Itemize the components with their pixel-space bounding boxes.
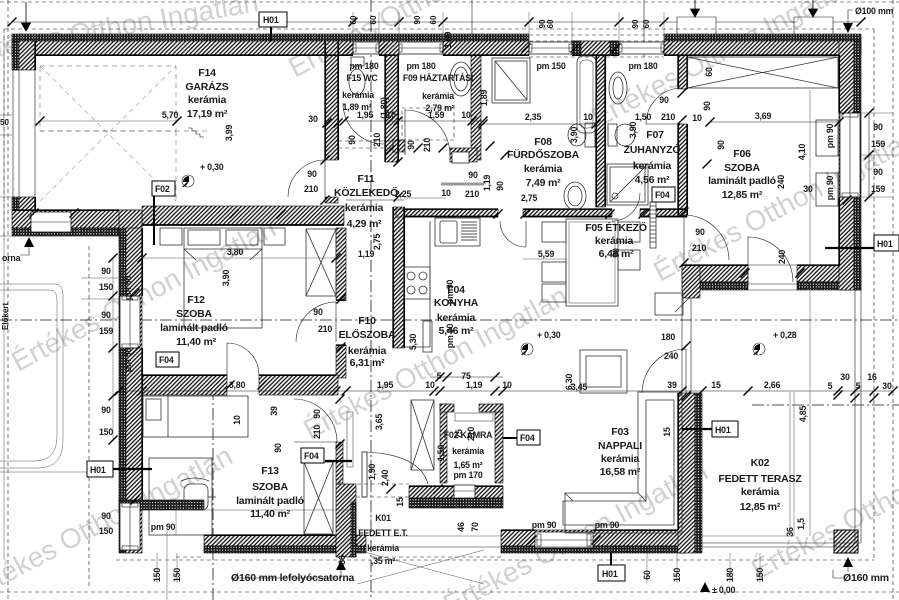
garage dim line: [36, 117, 182, 126]
kamra east wall: [495, 404, 503, 483]
svg-text:150: 150: [99, 526, 113, 536]
svg-text:F08: F08: [534, 136, 552, 148]
garage step glyph: [188, 128, 204, 137]
leader lefolyocsatorna left: [20, 245, 29, 255]
svg-text:2,25: 2,25: [395, 189, 412, 199]
svg-text:90: 90: [659, 95, 669, 105]
svg-text:F11: F11: [358, 173, 375, 185]
svg-text:60: 60: [429, 15, 438, 24]
svg-text:46: 46: [456, 522, 466, 532]
svg-text:150: 150: [672, 568, 682, 582]
svg-text:15: 15: [395, 497, 405, 507]
basin zuhanyzo: [609, 72, 627, 104]
svg-text:pm 90: pm 90: [123, 275, 133, 300]
svg-text:F15 WC: F15 WC: [346, 73, 378, 83]
window kamra south: [454, 485, 475, 498]
room F14 garazs label: [185, 67, 228, 120]
toilet wc: [349, 57, 365, 95]
svg-text:Ø160 mm: Ø160 mm: [843, 572, 889, 584]
label box F02 garage: [152, 181, 175, 245]
H01 tick F13 wall: [325, 460, 352, 462]
svg-text:F14: F14: [198, 67, 216, 79]
wall junction garage-F12: [119, 210, 142, 236]
window nappali south: [535, 532, 593, 548]
svg-text:ELŐSZOBA: ELŐSZOBA: [339, 328, 396, 341]
szoba F06 south wall east segment: [797, 265, 861, 282]
svg-text:pm 90: pm 90: [123, 347, 133, 372]
garage door opening west: [13, 70, 35, 197]
F13 south wall: [204, 535, 366, 546]
svg-text:F04: F04: [159, 355, 174, 365]
svg-text:15: 15: [662, 427, 672, 437]
svg-text:kerámia: kerámia: [345, 202, 384, 214]
door etkezo-terasz arc: [748, 237, 793, 282]
svg-text:laminált padló: laminált padló: [160, 322, 228, 334]
room F12 szoba label: [160, 294, 228, 348]
top wall hatch segment 2: [443, 41, 529, 55]
svg-text:1,19: 1,19: [358, 249, 375, 259]
svg-text:FÜRDŐSZOBA: FÜRDŐSZOBA: [507, 148, 580, 161]
porch west wall: [336, 484, 356, 557]
svg-text:F02: F02: [155, 184, 170, 194]
svg-text:159: 159: [871, 184, 885, 194]
svg-text:90: 90: [313, 307, 323, 317]
svg-text:H01: H01: [90, 465, 106, 475]
roof vent left: [677, 17, 716, 34]
svg-text:5: 5: [856, 381, 861, 391]
svg-text:90: 90: [101, 511, 111, 521]
kitchen sink unit: [435, 218, 480, 246]
svg-text:1,65 m²: 1,65 m²: [454, 460, 483, 470]
svg-text:90: 90: [702, 101, 712, 111]
svg-text:pm 90: pm 90: [825, 123, 835, 148]
svg-text:50: 50: [0, 118, 9, 127]
main bottom dim chain: [115, 387, 898, 396]
bathtub furdo: [577, 56, 596, 133]
room F03 nappali label: [598, 426, 642, 478]
wall inner face lines: [12, 41, 839, 535]
svg-text:pm 170: pm 170: [453, 470, 482, 480]
door opening szoba terrace lines: [748, 265, 797, 290]
svg-text:6,31 m²: 6,31 m²: [350, 357, 385, 369]
terrace edge k02 inner: [702, 392, 794, 536]
nappali texts: [532, 332, 679, 530]
porch canopy cross: [357, 550, 484, 584]
svg-text:10: 10: [232, 415, 242, 425]
wall haztartasi-furdo: [471, 55, 481, 160]
bottom rotated dims: [152, 555, 765, 582]
kitchen counter: [404, 221, 430, 347]
svg-text:2,75: 2,75: [372, 234, 382, 251]
svg-text:90: 90: [468, 170, 478, 180]
svg-text:1,95: 1,95: [377, 380, 394, 390]
svg-text:F10: F10: [358, 315, 376, 327]
svg-text:240: 240: [776, 175, 786, 189]
shower zuhanyzo: [607, 164, 648, 205]
dim texts f13: [269, 406, 283, 453]
bottom extension lines: [157, 508, 760, 600]
svg-text:5,70: 5,70: [162, 110, 179, 120]
svg-text:FEDETT E.T.: FEDETT E.T.: [358, 528, 408, 538]
svg-text:15: 15: [711, 380, 721, 390]
dim texts row garage: [162, 110, 234, 141]
interior dim row wc: [340, 117, 488, 126]
terrace bottom dim ticks: [834, 391, 879, 403]
svg-text:90: 90: [406, 140, 416, 150]
svg-text:10: 10: [461, 110, 471, 120]
svg-text:pm 90: pm 90: [445, 323, 455, 348]
door szoba F06 terrace sill: [748, 283, 797, 285]
svg-text:12,85 m²: 12,85 m²: [740, 501, 781, 513]
svg-text:F12: F12: [187, 294, 205, 306]
svg-text:12,85 m²: 12,85 m²: [722, 189, 763, 201]
door threshold haztartasi: [452, 152, 469, 163]
nightstand F06 b: [816, 173, 838, 206]
svg-text:30: 30: [882, 381, 892, 391]
window F12 west: [120, 296, 140, 348]
svg-text:2,66: 2,66: [764, 380, 781, 390]
kitchen ledge: [423, 321, 432, 352]
svg-text:3,69: 3,69: [755, 111, 772, 121]
svg-text:60: 60: [349, 15, 358, 24]
neighbour pool outline: [0, 284, 63, 468]
dim texts f12: [123, 247, 332, 372]
svg-text:210: 210: [318, 324, 332, 334]
wall zuhanyzo-szoba upper: [678, 55, 687, 89]
svg-text:kerámia: kerámia: [188, 94, 227, 106]
top rotated dims: [349, 15, 651, 28]
window top 3: [529, 42, 572, 54]
svg-text:F13: F13: [261, 465, 279, 477]
svg-text:10: 10: [692, 113, 702, 123]
nappali south wall: [501, 530, 686, 546]
svg-text:90: 90: [631, 19, 640, 28]
svg-text:60: 60: [369, 15, 378, 24]
dim row etkezo: [523, 258, 567, 260]
rotated dims middle: [232, 334, 480, 532]
west wall garage upper: [12, 41, 19, 70]
svg-text:60: 60: [546, 19, 555, 28]
svg-text:FEDETT TERASZ: FEDETT TERASZ: [718, 473, 802, 485]
svg-text:10: 10: [441, 188, 451, 198]
main axis vertical: [370, 0, 372, 600]
svg-text:H01: H01: [602, 569, 618, 579]
svg-text:10: 10: [583, 112, 593, 122]
svg-text:kerámia: kerámia: [452, 446, 484, 456]
svg-text:90: 90: [611, 248, 621, 258]
svg-text:180: 180: [661, 332, 675, 342]
svg-text:KÖZLEKEDŐ: KÖZLEKEDŐ: [334, 186, 398, 199]
svg-text:H01: H01: [263, 15, 279, 25]
svg-text:5: 5: [828, 381, 833, 391]
svg-text:90: 90: [307, 169, 317, 179]
svg-text:90: 90: [101, 310, 111, 320]
axis vertical left: [212, 388, 214, 600]
svg-text:90: 90: [273, 443, 283, 453]
svg-text:1,50: 1,50: [436, 445, 446, 462]
wardrobe eloszoba: [411, 400, 434, 470]
svg-text:kerámia: kerámia: [595, 235, 634, 247]
garage south wall: [12, 210, 142, 228]
kamra dim row: [430, 373, 503, 382]
left vertical dimension line: [0, 34, 119, 560]
window garage south: [31, 212, 71, 232]
svg-text:1,59: 1,59: [428, 110, 445, 120]
svg-text:2,35: 2,35: [525, 112, 542, 122]
svg-text:kerámia: kerámia: [437, 312, 476, 324]
entrance door leaf: [362, 452, 367, 497]
dim texts kozlekedo: [304, 114, 505, 250]
entrance door arc: [367, 452, 428, 484]
svg-text:16: 16: [867, 372, 877, 382]
window szoba east: [840, 113, 860, 197]
left vertical dim line F12: [81, 254, 119, 445]
east wall building: [839, 41, 854, 290]
svg-text:75: 75: [454, 429, 464, 439]
roof vent right: [794, 17, 833, 34]
svg-text:F03: F03: [611, 426, 629, 438]
wall kozlekedo east lower: [393, 207, 404, 348]
room F05 etkezo label: [585, 221, 647, 260]
wardrobe F12: [306, 229, 336, 296]
dim row F12: [138, 254, 341, 263]
svg-text:60: 60: [642, 19, 651, 28]
west wall garage lower stub: [12, 197, 19, 210]
interior dim row furdo: [479, 120, 601, 129]
svg-text:11,40 m²: 11,40 m²: [250, 508, 291, 520]
toilet furdo: [568, 123, 595, 147]
svg-text:60: 60: [642, 570, 652, 580]
svg-text:90: 90: [101, 405, 111, 415]
chair F13: [181, 478, 216, 510]
svg-text:1,50: 1,50: [635, 112, 652, 122]
wardrobe F13: [304, 462, 333, 534]
right vertical dim line terrace: [809, 90, 811, 536]
svg-text:150: 150: [152, 568, 162, 582]
axis horizontal right lower: [752, 404, 899, 406]
dim texts row small rooms: [357, 110, 772, 122]
svg-text:F05 ÉTKEZŐ: F05 ÉTKEZŐ: [585, 221, 647, 234]
room F09 haztartasi label: [403, 61, 473, 113]
svg-text:F04: F04: [655, 190, 670, 200]
room F08 furdoszoba label: [507, 136, 580, 189]
svg-text:70: 70: [470, 522, 480, 532]
door opening etkezo-terasz: [675, 298, 691, 393]
wall F12-eloszoba upper: [336, 228, 346, 300]
svg-text:5: 5: [437, 371, 442, 381]
svg-text:1,19: 1,19: [482, 175, 492, 192]
section line top b: [643, 0, 645, 57]
svg-text:7,49 m²: 7,49 m²: [526, 177, 561, 189]
level mark bottom: [700, 582, 710, 592]
svg-text:kerámia: kerámia: [741, 486, 780, 498]
main axis horizontal left: [0, 319, 899, 321]
svg-text:kerámia: kerámia: [367, 543, 399, 553]
svg-text:kerámia: kerámia: [601, 453, 640, 465]
label box F04 f13: [301, 448, 324, 463]
appliance dashed box haztartasi: [402, 108, 454, 140]
svg-text:5,30: 5,30: [408, 334, 418, 351]
svg-text:(1,80): (1,80): [379, 97, 389, 119]
svg-text:SZOBA: SZOBA: [724, 162, 760, 174]
svg-text:kerámia: kerámia: [422, 91, 454, 101]
nappali east wall: [678, 393, 695, 553]
svg-text:150: 150: [755, 568, 765, 582]
svg-text:240: 240: [777, 250, 787, 264]
svg-text:KONYHA: KONYHA: [434, 297, 479, 309]
F13 south-west step: [119, 500, 204, 510]
svg-text:30: 30: [840, 372, 850, 382]
kamra shelf: [455, 413, 493, 421]
door garage-kozlekedo arc: [288, 160, 325, 197]
svg-text:pm 90: pm 90: [595, 520, 620, 530]
label box F04 f12: [156, 352, 179, 367]
svg-text:Előkert: Előkert: [1, 303, 10, 330]
svg-text:90: 90: [695, 227, 705, 237]
svg-text:,35 m²: ,35 m²: [371, 556, 395, 566]
svg-text:laminált padló: laminált padló: [236, 495, 304, 507]
svg-text:kerámia: kerámia: [348, 345, 387, 357]
svg-text:SZOBA: SZOBA: [252, 481, 288, 493]
svg-text:210: 210: [661, 112, 675, 122]
svg-text:30: 30: [308, 114, 318, 124]
svg-text:F07: F07: [646, 129, 664, 141]
door haztartasi arc: [405, 110, 450, 155]
wall F12-F13: [142, 375, 227, 395]
west wall rooms F12 F13: [119, 228, 126, 553]
svg-text:NAPPALI: NAPPALI: [598, 440, 642, 452]
svg-text:3,90: 3,90: [628, 122, 638, 139]
toilet zuhanyzo: [608, 124, 635, 146]
svg-text:F06: F06: [733, 148, 751, 160]
label box H01 right: [825, 235, 899, 251]
window top 2: [399, 42, 443, 54]
door nappali-terasz arc: [642, 349, 686, 393]
wall furdo-konyha: [396, 209, 498, 217]
label box H01 left: [0, 461, 152, 477]
wall F13 east: [336, 442, 343, 483]
svg-text:90: 90: [413, 15, 422, 24]
wall zuhanyzo-szoba lower: [678, 124, 687, 215]
dim texts zuhanyzo door: [635, 95, 702, 123]
wall kozlekedo east upper: [393, 140, 405, 152]
svg-text:210: 210: [372, 133, 382, 147]
nightstand F06 a: [816, 120, 838, 156]
radiator etkezo: [650, 202, 656, 248]
dining table: [542, 219, 640, 306]
svg-text:pm 150: pm 150: [536, 61, 565, 71]
svg-text:SZOBA: SZOBA: [176, 308, 212, 320]
room F07 zuhanyzo label: [624, 129, 681, 186]
svg-text:3,65: 3,65: [374, 414, 384, 431]
label box H01 bottom: [598, 553, 625, 581]
top dimension line: [8, 18, 866, 27]
rotated dims terrace right: [662, 406, 808, 537]
dim texts right edge: [797, 122, 885, 200]
svg-text:pm 180: pm 180: [628, 61, 657, 71]
svg-text:90: 90: [873, 122, 883, 132]
entrance south wall: [409, 486, 503, 498]
svg-text:1,5: 1,5: [796, 518, 806, 530]
shelf F06: [655, 293, 683, 315]
svg-text:210: 210: [692, 243, 706, 253]
armchair nappali: [580, 350, 627, 393]
svg-text:16,58 m²: 16,58 m²: [600, 466, 641, 478]
porch slab lines: [176, 510, 501, 536]
section arrow top-left: [22, 2, 31, 31]
wall wc south: [338, 141, 405, 148]
door wc arc: [343, 103, 384, 144]
dim texts bottom chain: [229, 371, 892, 391]
svg-text:180: 180: [725, 568, 735, 582]
door F13 arc: [294, 399, 337, 442]
svg-text:3,90: 3,90: [221, 270, 231, 287]
window top 1: [353, 42, 379, 54]
door zuhanyzo arc: [646, 88, 682, 124]
bed F12: [160, 228, 285, 328]
door szoba F06 arc: [684, 215, 729, 260]
svg-text:1,89: 1,89: [443, 32, 453, 49]
svg-text:Ø160 mm lefolyócsatorna: Ø160 mm lefolyócsatorna: [231, 572, 355, 584]
room F11 kozlekedo label: [334, 173, 398, 230]
rotated dims top rooms: [379, 32, 714, 144]
svg-text:pm 90: pm 90: [825, 175, 835, 200]
svg-text:kerámia: kerámia: [524, 163, 563, 175]
label box H01 top: [259, 12, 287, 41]
wall garage stub below door: [325, 197, 338, 203]
svg-text:kerámia: kerámia: [633, 160, 672, 172]
wall F12-eloszoba lower: [336, 345, 346, 378]
kitchen stove: [404, 267, 430, 299]
svg-text:pm 180: pm 180: [406, 61, 435, 71]
svg-text:1,19: 1,19: [466, 380, 483, 390]
svg-text:+ 0,28: + 0,28: [773, 330, 797, 340]
svg-text:laminált padló: laminált padló: [708, 175, 776, 187]
svg-text:11,40 m²: 11,40 m²: [176, 336, 217, 348]
svg-text:150: 150: [172, 568, 182, 582]
svg-text:36: 36: [785, 527, 795, 537]
garage south wall east part: [142, 206, 344, 225]
svg-text:5,59: 5,59: [538, 249, 555, 259]
door F12 arc: [296, 302, 336, 342]
sofa nappali: [563, 392, 682, 533]
svg-text:3,90: 3,90: [569, 127, 579, 144]
svg-text:90: 90: [101, 266, 111, 276]
label box F04 zuhanyzo: [652, 187, 675, 202]
svg-text:159: 159: [99, 326, 113, 336]
svg-text:210: 210: [312, 425, 322, 439]
svg-text:10: 10: [425, 380, 435, 390]
dim texts left edge: [99, 266, 176, 536]
svg-text:3,80: 3,80: [227, 247, 244, 257]
svg-text:K02: K02: [751, 457, 770, 469]
pm180 window labels top right: [536, 61, 657, 71]
top wall hatch segment 1: [12, 41, 353, 55]
svg-text:90: 90: [495, 181, 505, 191]
room F06 szoba label: [708, 148, 776, 201]
terrace edge lines right: [855, 290, 861, 543]
hall shelf: [347, 412, 353, 467]
svg-text:4,29 m²: 4,29 m²: [347, 218, 382, 230]
svg-text:60: 60: [704, 67, 714, 77]
dim row kozlekedo: [346, 198, 446, 200]
top extension lines: [353, 12, 664, 41]
wall furdo-zuhanyzo: [596, 55, 605, 207]
room F10 eloszoba label: [339, 315, 396, 369]
room K01 fedett et label: [358, 513, 408, 566]
svg-text:17,19 m²: 17,19 m²: [187, 108, 228, 120]
svg-text:pm 90: pm 90: [445, 279, 455, 304]
